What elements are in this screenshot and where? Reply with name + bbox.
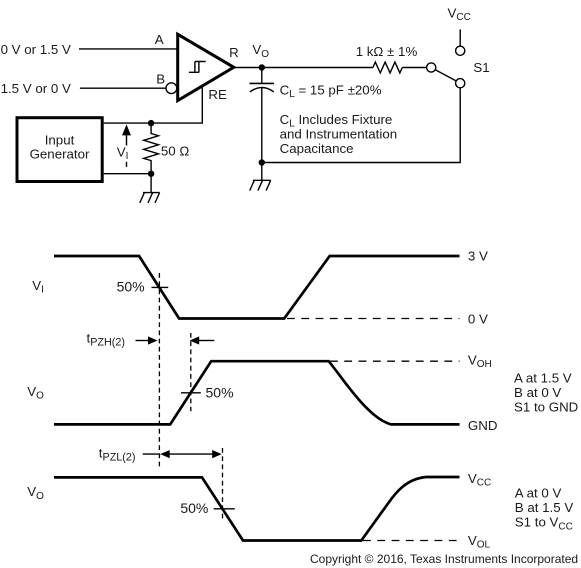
- svg-text:Generator: Generator: [30, 147, 90, 162]
- tPZH right arrow: [199, 340, 214, 342]
- wire output R to switch: [234, 67, 427, 69]
- dashed VOH level line: [330, 360, 460, 362]
- 50% tick on VO2: [214, 508, 235, 510]
- svg-text:50%: 50%: [206, 385, 234, 401]
- switch S1 upper throw contact: [456, 46, 465, 55]
- svg-text:1.5 V or 0 V: 1.5 V or 0 V: [1, 81, 71, 96]
- svg-text:Copyright © 2016, Texas Instru: Copyright © 2016, Texas Instruments Inco…: [310, 552, 578, 566]
- 50% tick on VI: [152, 286, 169, 288]
- resistor R2 50 ohm zigzag: [144, 123, 159, 174]
- tPZL double arrow: [168, 453, 214, 455]
- svg-text:R: R: [229, 45, 239, 60]
- svg-text:and Instrumentation: and Instrumentation: [280, 126, 398, 141]
- capacitor CL: [250, 82, 275, 84]
- wire VO to capacitor: [261, 68, 263, 84]
- dashed cursor line 2: [190, 333, 192, 411]
- wire generator bottom: [104, 173, 151, 175]
- svg-text:S1 to GND: S1 to GND: [514, 400, 578, 415]
- svg-text:0 V or 1.5 V: 0 V or 1.5 V: [1, 42, 71, 57]
- svg-text:3 V: 3 V: [468, 248, 488, 263]
- svg-text:B at 0 V: B at 0 V: [514, 385, 561, 400]
- svg-text:CL = 15 pF ±20%: CL = 15 pF ±20%: [280, 82, 382, 100]
- wire VCC to upper contact: [459, 29, 461, 46]
- svg-text:A at 0 V: A at 0 V: [515, 486, 562, 501]
- svg-text:A at 1.5 V: A at 1.5 V: [514, 371, 572, 386]
- input generator box: [17, 118, 102, 182]
- waveform VO1 trace: [54, 361, 460, 424]
- dashed cursor line 1: [158, 273, 160, 467]
- svg-text:Input: Input: [45, 133, 75, 148]
- wire generator top to RE: [104, 86, 203, 123]
- ground under capacitor: [250, 180, 271, 190]
- tPZH left arrow: [136, 340, 150, 342]
- svg-text:S1: S1: [473, 60, 489, 75]
- VI dashed stem: [126, 162, 128, 170]
- VI measurement arrow: [126, 135, 128, 146]
- svg-text:1 kΩ ± 1%: 1 kΩ ± 1%: [356, 44, 418, 59]
- svg-text:RE: RE: [208, 87, 227, 102]
- svg-text:B at 1.5 V: B at 1.5 V: [515, 500, 574, 515]
- node VO junction dot: [259, 64, 265, 70]
- svg-text:Capacitance: Capacitance: [280, 141, 354, 156]
- dashed cursor line 3: [222, 448, 224, 521]
- switch S1 lower throw contact: [456, 79, 465, 88]
- switch S1 pole contact: [427, 63, 436, 72]
- waveform VI trace: [54, 256, 460, 319]
- svg-text:A: A: [155, 32, 164, 47]
- hysteresis symbol inside U1: [189, 62, 206, 73]
- switch S1 blade: [435, 70, 456, 81]
- svg-text:50%: 50%: [117, 279, 145, 295]
- svg-text:B: B: [156, 72, 165, 87]
- 50% tick on VO1: [181, 392, 201, 394]
- wire B input: [80, 87, 166, 89]
- junction dot top of R2: [148, 120, 154, 126]
- svg-text:50%: 50%: [180, 500, 208, 516]
- wire A input: [79, 48, 178, 50]
- wire R2 to ground: [150, 174, 152, 193]
- junction dot bottom of R2: [148, 171, 154, 177]
- dashed 0V level line: [287, 318, 460, 320]
- svg-text:50 Ω: 50 Ω: [161, 143, 189, 158]
- buffer U1 triangle: [178, 34, 234, 100]
- tPZL leader line: [143, 453, 161, 455]
- waveform VO2 trace: [54, 477, 460, 541]
- svg-text:0 V: 0 V: [468, 312, 488, 327]
- dashed VOL level line: [363, 540, 460, 542]
- inverting bubble on B: [166, 83, 177, 94]
- junction dot bottom of capacitor: [259, 159, 265, 165]
- wire capacitor to bottom rail: [261, 88, 263, 181]
- resistor R1 1k zigzag: [373, 62, 402, 73]
- wire bottom rail to S1: [262, 88, 460, 163]
- svg-text:GND: GND: [468, 418, 498, 433]
- ground under R2: [140, 193, 160, 203]
